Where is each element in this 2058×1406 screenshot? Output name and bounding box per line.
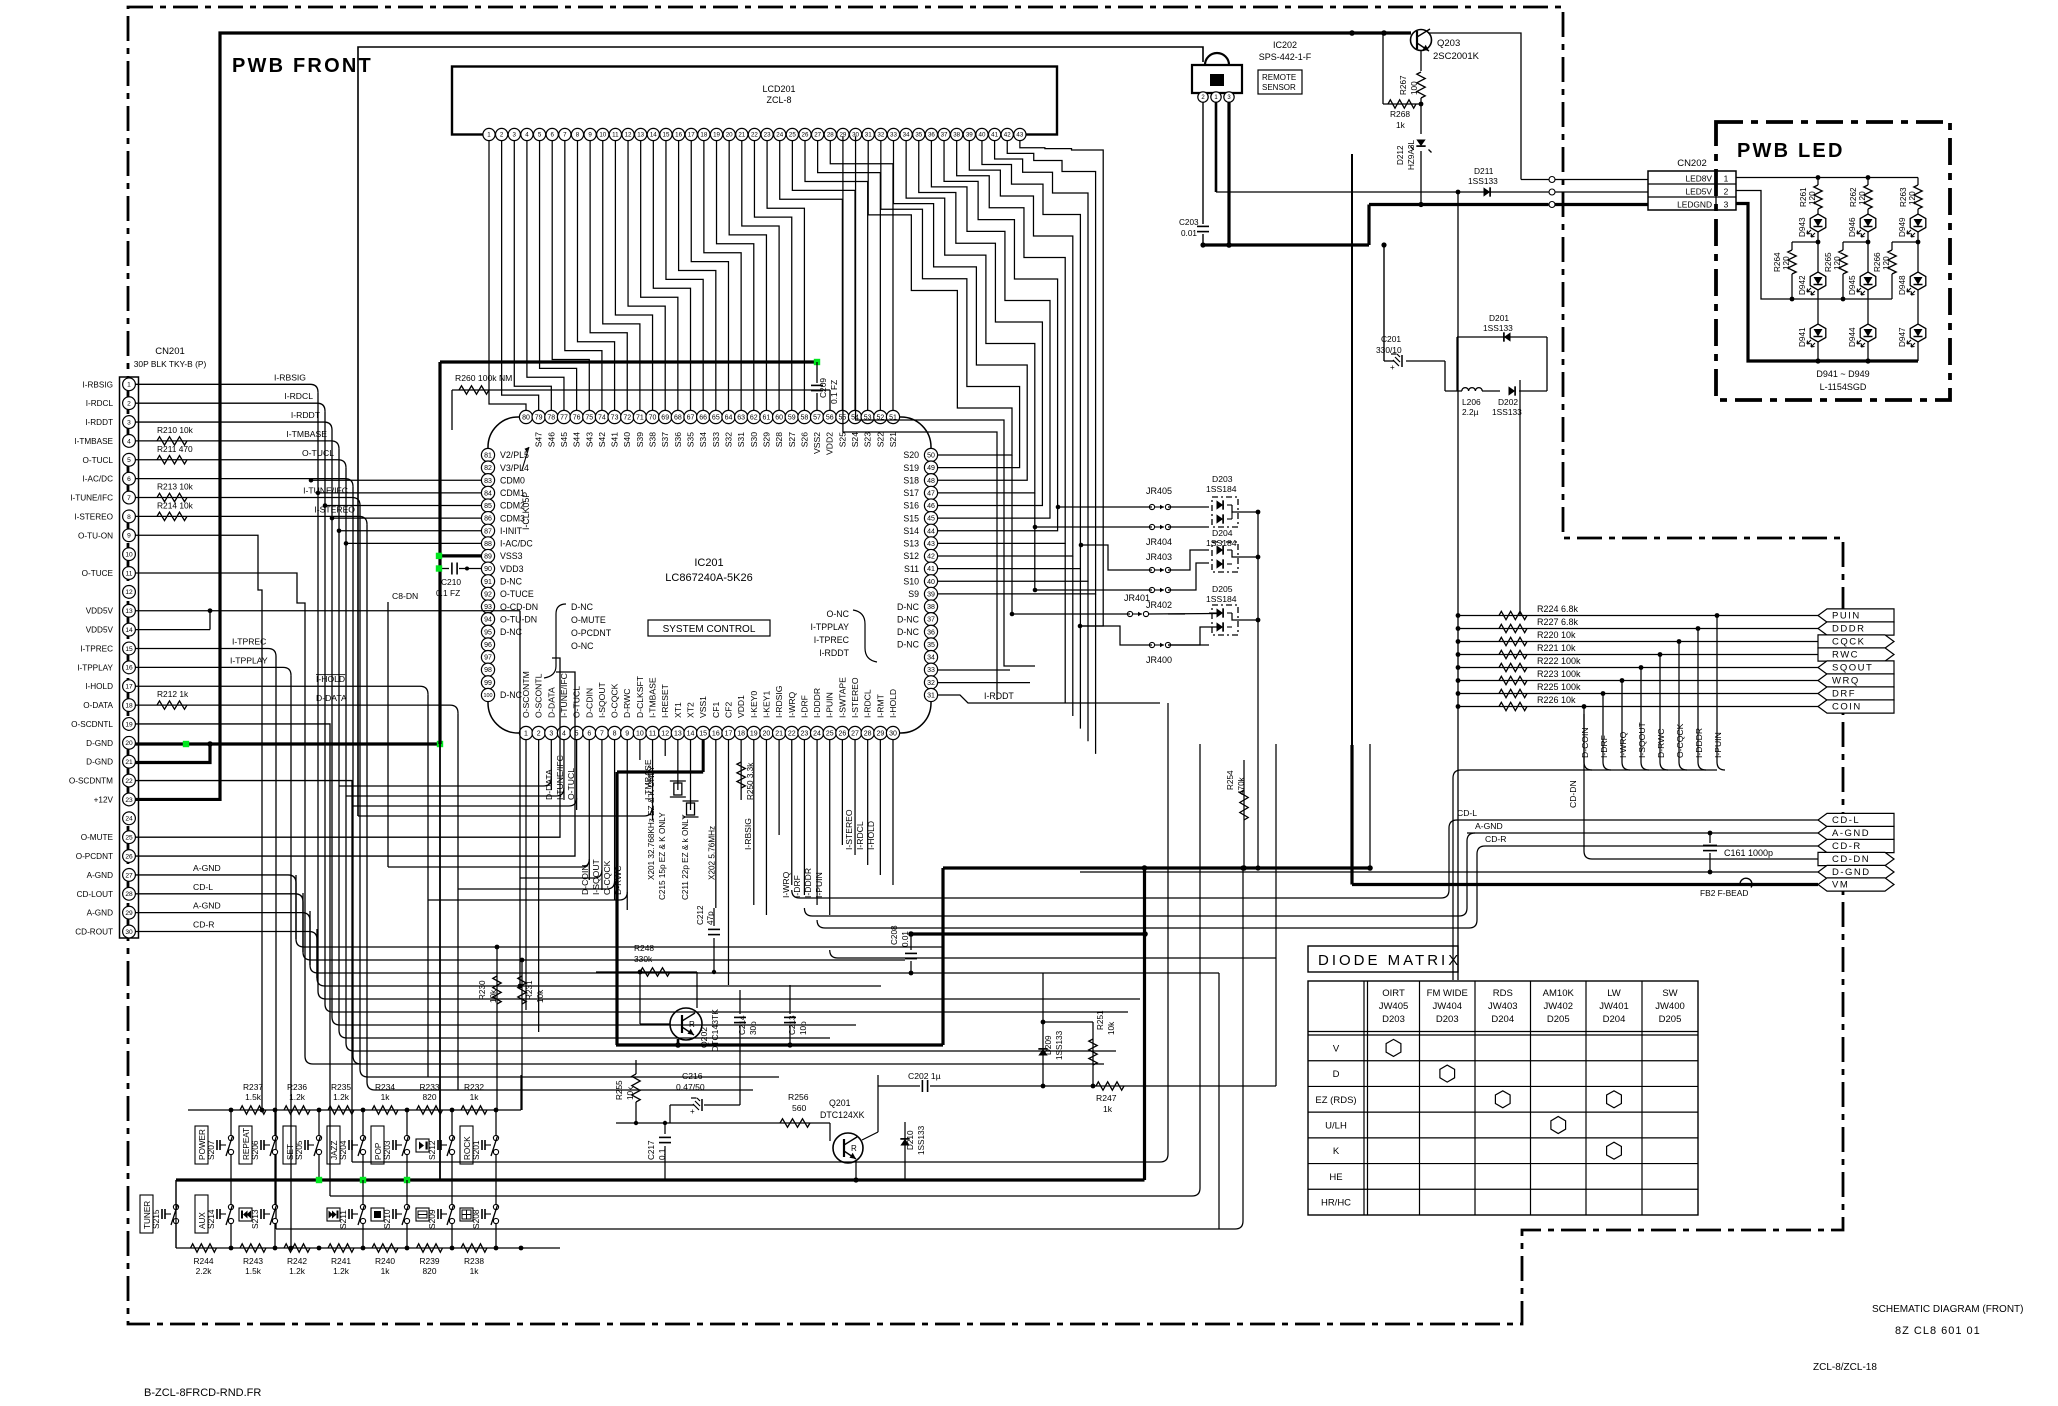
svg-text:I-PUIN: I-PUIN: [825, 692, 835, 718]
svg-text:JR403: JR403: [1146, 552, 1172, 562]
svg-text:19: 19: [125, 721, 133, 728]
CN201 pin 22: [123, 774, 136, 787]
resistor R214 10k: [157, 512, 187, 520]
svg-text:24: 24: [813, 731, 821, 738]
IC201 pin 100: [481, 688, 494, 701]
svg-text:+: +: [1390, 363, 1395, 372]
svg-text:I-RDDT: I-RDDT: [819, 648, 849, 658]
svg-text:S208: S208: [471, 1209, 481, 1229]
svg-text:JR401: JR401: [1124, 593, 1150, 603]
resistor R254 470k: [1243, 760, 1245, 868]
wire CN201 pin3: [136, 421, 325, 423]
svg-text:D205: D205: [1659, 1014, 1682, 1025]
svg-text:10: 10: [599, 132, 606, 139]
svg-text:R247: R247: [1096, 1093, 1117, 1103]
svg-text:67: 67: [687, 415, 695, 422]
wire R260 left end down: [451, 390, 453, 430]
svg-text:D205: D205: [1547, 1014, 1570, 1025]
CN201 pin 4: [123, 435, 136, 448]
svg-text:I-STEREO: I-STEREO: [74, 512, 113, 521]
svg-text:SPS-442-1-F: SPS-442-1-F: [1259, 52, 1312, 62]
resistor R266 120: [1892, 241, 1918, 243]
IC201 pin 74: [595, 410, 608, 423]
svg-text:D-RWC: D-RWC: [1656, 729, 1666, 758]
wire to CD-R tag: [1485, 845, 1818, 847]
IC201 pin 68: [671, 410, 684, 423]
svg-text:D942: D942: [1798, 275, 1807, 295]
svg-text:A-GND: A-GND: [87, 909, 113, 918]
CN201 pin 18: [123, 699, 136, 712]
svg-text:S44: S44: [572, 432, 582, 448]
wire: [324, 411, 326, 1004]
IC201 pin 28: [861, 726, 874, 739]
wire thick LEDGND line y204.5: [1369, 203, 1549, 206]
svg-text:22: 22: [788, 731, 796, 738]
svg-text:12: 12: [661, 731, 669, 738]
svg-text:SW: SW: [1662, 988, 1677, 999]
wire CN201 pin27 A-GND: [136, 874, 289, 876]
IC201 pin 53: [861, 410, 874, 423]
jumper JR402: [1149, 587, 1154, 592]
wire IC202 pin1 to LED5V: [1215, 102, 1218, 192]
CN201 pin 6: [123, 472, 136, 485]
svg-text:D-CDIN: D-CDIN: [584, 688, 594, 718]
svg-text:D201: D201: [1489, 313, 1509, 323]
svg-text:28: 28: [827, 132, 834, 139]
svg-text:78: 78: [547, 415, 555, 422]
wire VSS1 thick: [702, 740, 705, 772]
IC201 pin 34: [924, 650, 937, 663]
svg-text:S212: S212: [427, 1140, 437, 1160]
svg-text:90: 90: [484, 566, 492, 573]
svg-text:R264: R264: [1773, 252, 1782, 272]
svg-text:I-RBSIG: I-RBSIG: [83, 380, 113, 389]
svg-text:D203: D203: [1382, 1014, 1405, 1025]
svg-text:15: 15: [663, 132, 670, 139]
wire TUNER left leg: [175, 1180, 177, 1248]
svg-text:S23: S23: [863, 432, 873, 448]
svg-text:C208: C208: [890, 925, 899, 945]
svg-text:R268: R268: [1390, 109, 1410, 119]
svg-text:U/LH: U/LH: [1325, 1121, 1347, 1132]
wire jumper feeds: [1056, 505, 1061, 510]
IC202 pin 3: [1224, 92, 1234, 102]
svg-text:CD-L: CD-L: [193, 882, 213, 892]
wire +12V bus (thick) from CN201 pin23: [136, 33, 1412, 799]
wire to CD-L tag: [1457, 819, 1818, 821]
switch S208: [493, 1204, 498, 1209]
wire: [317, 392, 319, 991]
svg-text:120: 120: [1908, 191, 1917, 205]
svg-text:39: 39: [927, 591, 935, 598]
svg-text:I-TUNE/IFC: I-TUNE/IFC: [70, 494, 113, 503]
terminal circles at board boundary: [1549, 177, 1555, 183]
svg-text:30P BLK TKY-B (P): 30P BLK TKY-B (P): [134, 359, 207, 369]
svg-text:S209: S209: [427, 1209, 437, 1229]
LCD201 pin 14: [647, 128, 659, 140]
svg-text:LEDGND: LEDGND: [1677, 200, 1712, 210]
wire CN201 pins13-14 VDD5V: [136, 610, 211, 612]
node +12V junctions: [1349, 30, 1355, 36]
IC201 pin 41: [924, 562, 937, 575]
LCD201 pin 42: [1001, 128, 1013, 140]
svg-text:VDD5V: VDD5V: [86, 607, 114, 616]
svg-text:D-COIN: D-COIN: [1580, 727, 1590, 758]
svg-text:I-AC/DC: I-AC/DC: [83, 475, 114, 484]
IC201 pin 63: [735, 410, 748, 423]
wire D-COIN drop: [1582, 704, 1587, 709]
wire thick riser x1144 from key bus: [1143, 868, 1146, 1180]
switch S204 JAZZ: [360, 1135, 365, 1140]
svg-text:PUIN: PUIN: [1832, 611, 1861, 622]
wire thick bus y868: [943, 866, 1370, 869]
svg-text:D202: D202: [1498, 397, 1518, 407]
svg-text:CF1: CF1: [711, 702, 721, 718]
svg-text:21: 21: [125, 759, 133, 766]
svg-text:5: 5: [538, 132, 542, 139]
svg-text:D209: D209: [1044, 1035, 1053, 1055]
dual diode D205 1SS184: [1212, 605, 1238, 635]
IC201 pin 71: [633, 410, 646, 423]
svg-text:79: 79: [535, 415, 543, 422]
svg-text:7: 7: [127, 495, 131, 502]
wire: [616, 1122, 700, 1124]
svg-text:38: 38: [953, 132, 960, 139]
LED D944: [1860, 324, 1876, 342]
svg-text:I-CLK05P: I-CLK05P: [521, 492, 531, 530]
LED D941: [1810, 324, 1826, 342]
IC201 pin 88: [481, 537, 494, 550]
svg-text:D-NC: D-NC: [571, 602, 594, 612]
svg-text:100: 100: [1410, 81, 1419, 95]
svg-text:I-TPPLAY: I-TPPLAY: [811, 622, 850, 632]
switch S213: [272, 1204, 277, 1209]
svg-text:R225 100k: R225 100k: [1537, 682, 1581, 692]
svg-text:28: 28: [864, 731, 872, 738]
svg-text:60: 60: [775, 415, 783, 422]
wire CN201 pin4: [136, 440, 332, 442]
svg-text:O-CQCK: O-CQCK: [1675, 723, 1685, 758]
IC201 pin 38: [924, 600, 937, 613]
IC201 pin 80: [519, 410, 532, 423]
svg-text:I-TMBASE: I-TMBASE: [74, 437, 113, 446]
svg-text:I-WRQ: I-WRQ: [781, 871, 791, 898]
svg-text:O-NC: O-NC: [571, 641, 594, 651]
svg-text:S38: S38: [648, 432, 658, 448]
IC201 pin 36: [924, 625, 937, 638]
svg-text:O-SCONTM: O-SCONTM: [521, 671, 531, 718]
svg-text:S21: S21: [888, 432, 898, 448]
svg-text:6: 6: [550, 132, 554, 139]
svg-text:76: 76: [573, 415, 581, 422]
svg-text:VM: VM: [1832, 880, 1849, 891]
svg-text:LCD201: LCD201: [762, 84, 795, 94]
svg-text:RWC: RWC: [1832, 650, 1859, 661]
svg-text:1k: 1k: [381, 1092, 391, 1102]
wire bundle LCD201 pins 29-43 staircase to IC201 right pins: [868, 141, 1012, 455]
svg-text:C202 1µ: C202 1µ: [908, 1071, 941, 1081]
svg-text:0.1: 0.1: [658, 1148, 667, 1160]
svg-text:SQOUT: SQOUT: [1832, 663, 1873, 674]
LCD201 pin 17: [685, 128, 697, 140]
svg-text:3: 3: [127, 419, 131, 426]
svg-text:S205: S205: [294, 1140, 304, 1160]
svg-text:V2/PL5: V2/PL5: [500, 450, 529, 460]
wire LCD pins 29-30 to far right verticals: [843, 136, 997, 700]
svg-text:I-STEREO: I-STEREO: [850, 677, 860, 718]
svg-text:I-RDDT: I-RDDT: [291, 410, 321, 420]
wire CN201 pin25 O-MUTE: [136, 658, 561, 837]
wire CN201 pin9 O-TU-ON: [136, 535, 263, 1110]
svg-text:I-SQOUT: I-SQOUT: [597, 681, 607, 718]
resistor R231 10k: [521, 960, 523, 1110]
IC201 pin 76: [570, 410, 583, 423]
DIODE MATRIX title box: [1308, 946, 1458, 972]
svg-text:43: 43: [927, 541, 935, 548]
svg-text:16: 16: [125, 665, 133, 672]
svg-text:K: K: [1333, 1146, 1340, 1157]
svg-text:22: 22: [751, 132, 758, 139]
svg-text:DIODE MATRIX: DIODE MATRIX: [1318, 952, 1461, 969]
IC201 pin 94: [481, 613, 494, 626]
svg-text:JW405: JW405: [1379, 1001, 1409, 1012]
svg-text:65: 65: [712, 415, 720, 422]
CN201 pin 23: [123, 793, 136, 806]
svg-text:R244: R244: [193, 1256, 213, 1266]
CN201 pin 12: [123, 585, 136, 598]
svg-text:S22: S22: [875, 432, 885, 448]
IC201 pin 7: [595, 726, 608, 739]
svg-text:15: 15: [125, 646, 133, 653]
svg-text:I-RDCL: I-RDCL: [86, 399, 114, 408]
svg-text:O-TUCE: O-TUCE: [82, 569, 114, 578]
wire CN201 pin26 O-PCDNT: [136, 672, 576, 856]
diode D210 1SS133: [904, 1122, 906, 1180]
wire IC bottom left connects: [339, 778, 551, 786]
svg-text:83: 83: [484, 478, 492, 485]
svg-text:80: 80: [522, 415, 530, 422]
IC201 pin 1: [519, 726, 532, 739]
IC201 pin 20: [760, 726, 773, 739]
resistor R248 330k: [596, 971, 697, 973]
svg-text:I-TPPLAY: I-TPPLAY: [77, 663, 113, 672]
svg-text:WRQ: WRQ: [1832, 676, 1860, 687]
svg-text:XT2: XT2: [686, 702, 696, 718]
IC201 pin 6: [583, 726, 596, 739]
svg-text:C212: C212: [696, 905, 705, 925]
node CQCK tag: [1818, 635, 1894, 648]
svg-text:S41: S41: [610, 432, 620, 448]
LCD201 pin 34: [900, 128, 912, 140]
svg-text:D204: D204: [1212, 528, 1233, 538]
svg-text:88: 88: [484, 541, 492, 548]
resistor R237 1.5k: [240, 1106, 266, 1114]
svg-text:S15: S15: [903, 513, 919, 523]
LCD201 pin 3: [508, 128, 520, 140]
IC201 pin 79: [532, 410, 545, 423]
svg-text:D: D: [1333, 1069, 1340, 1080]
svg-text:10k: 10k: [626, 1086, 635, 1100]
IC201 pin 47: [924, 486, 937, 499]
wire Q203 emitter down: [1420, 51, 1422, 72]
LCD201 pin 6: [546, 128, 558, 140]
svg-text:S9: S9: [908, 589, 919, 599]
svg-text:VDD5V: VDD5V: [86, 626, 114, 635]
svg-text:ZCL-8: ZCL-8: [766, 95, 791, 105]
IC201 pin 15: [697, 726, 710, 739]
svg-text:VSS1: VSS1: [698, 696, 708, 718]
switch S210: [404, 1204, 409, 1209]
LCD201 pin 9: [584, 128, 596, 140]
resistor R241 1.2k: [328, 1244, 354, 1252]
svg-text:A-GND: A-GND: [87, 871, 113, 880]
svg-text:R227 6.8k: R227 6.8k: [1537, 617, 1579, 627]
wire D-GND bus from CN201 pins 20-21 (thick): [136, 742, 441, 745]
svg-text:LED5V: LED5V: [1685, 187, 1712, 197]
svg-text:S214: S214: [206, 1209, 216, 1229]
IC201 pin 32: [924, 676, 937, 689]
svg-text:I-WRQ: I-WRQ: [1618, 731, 1628, 758]
svg-text:I-HOLD: I-HOLD: [316, 674, 345, 684]
svg-text:CD-R: CD-R: [1832, 841, 1862, 852]
IC201 pin 64: [722, 410, 735, 423]
svg-text:R260 100k NM: R260 100k NM: [455, 373, 512, 383]
svg-text:74: 74: [598, 415, 606, 422]
svg-text:I-HOLD: I-HOLD: [866, 821, 876, 850]
IC202 pin 2: [1198, 92, 1208, 102]
svg-text:DTC124XK: DTC124XK: [820, 1110, 865, 1120]
IC201 pin 5: [570, 726, 583, 739]
svg-text:71: 71: [636, 415, 644, 422]
IC201 pin 29: [874, 726, 887, 739]
CN201 pin 2: [123, 397, 136, 410]
wire LED8V rail: [1736, 177, 1918, 179]
IC201 pin 56: [823, 410, 836, 423]
svg-text:29: 29: [125, 910, 133, 917]
IC201 pin 21: [773, 726, 786, 739]
LCD201 pin 40: [976, 128, 988, 140]
svg-text:6: 6: [587, 731, 591, 738]
svg-text:R263: R263: [1899, 187, 1908, 207]
CN201 pin 15: [123, 642, 136, 655]
svg-text:48: 48: [927, 478, 935, 485]
svg-text:I-RDSIG: I-RDSIG: [774, 685, 784, 718]
resistor R265 120: [1843, 241, 1868, 243]
LCD201 pin 37: [938, 128, 950, 140]
svg-text:26: 26: [802, 132, 809, 139]
svg-text:S45: S45: [559, 432, 569, 448]
wire to D-GND tag: [1080, 871, 1818, 873]
wire CF1/CF2 drops: [715, 740, 717, 908]
switch S207 POWER: [228, 1135, 233, 1140]
svg-text:R231: R231: [525, 980, 534, 1000]
svg-text:R210 10k: R210 10k: [157, 425, 194, 435]
switch S203 POP: [404, 1135, 409, 1140]
LED D949: [1910, 214, 1926, 232]
svg-text:R239: R239: [419, 1256, 439, 1266]
svg-text:S31: S31: [736, 432, 746, 448]
svg-text:D946: D946: [1848, 217, 1857, 237]
capacitor C217 0.1: [659, 1136, 671, 1138]
svg-text:1.5k: 1.5k: [245, 1266, 262, 1276]
svg-text:D-RWC: D-RWC: [622, 689, 632, 718]
svg-text:R237: R237: [243, 1082, 263, 1092]
resistor R225 100k: [1458, 693, 1818, 695]
wire CN201 pin30 CD-R: [136, 931, 310, 933]
svg-text:96: 96: [484, 642, 492, 649]
LED D942: [1810, 272, 1826, 290]
svg-text:2SC2001K: 2SC2001K: [1433, 51, 1480, 62]
LCD201 pin 19: [710, 128, 722, 140]
svg-text:33: 33: [890, 132, 897, 139]
svg-text:D949: D949: [1898, 217, 1907, 237]
LCD201 pin 4: [521, 128, 533, 140]
LCD201 pin 1: [483, 128, 495, 140]
svg-text:S30: S30: [749, 432, 759, 448]
svg-text:21: 21: [775, 731, 783, 738]
svg-text:O-DATA: O-DATA: [83, 701, 113, 710]
svg-text:10: 10: [636, 731, 644, 738]
svg-text:I-HOLD: I-HOLD: [85, 682, 113, 691]
svg-text:36: 36: [927, 629, 935, 636]
wire CN201 pin7: [136, 497, 353, 499]
board boundary PWB FRONT (dash-dot border): [128, 7, 1843, 1324]
svg-text:20: 20: [726, 132, 733, 139]
svg-text:2: 2: [537, 731, 541, 738]
svg-text:35: 35: [927, 642, 935, 649]
IC201 pin 48: [924, 474, 937, 487]
svg-text:S18: S18: [903, 475, 919, 485]
svg-text:25: 25: [789, 132, 796, 139]
LCD201 pin 20: [723, 128, 735, 140]
IC201 pin 70: [646, 410, 659, 423]
svg-text:XT1: XT1: [673, 702, 683, 718]
resistor chain top row R237-R232: [188, 1109, 521, 1111]
svg-text:R220 10k: R220 10k: [1537, 630, 1576, 640]
IC201 pin 46: [924, 499, 937, 512]
svg-text:L206: L206: [1462, 397, 1481, 407]
svg-text:LED8V: LED8V: [1685, 174, 1712, 184]
wire lower long lines with right risers: [352, 1161, 1160, 1163]
IC201 pin 61: [760, 410, 773, 423]
wire O-CQCK drop: [1677, 639, 1682, 644]
wire I-DRF drop: [1601, 691, 1606, 696]
wire D-RWC drop: [1658, 652, 1663, 657]
svg-text:JR404: JR404: [1146, 537, 1172, 547]
ferrite bead FB2 F-BEAD: [1740, 878, 1752, 887]
svg-text:I-RDCL: I-RDCL: [855, 821, 865, 850]
resistor R211 470: [157, 456, 187, 464]
transistor Q203 2SC2001K: [1411, 30, 1432, 51]
svg-text:D944: D944: [1848, 327, 1857, 347]
LCD201 pin 29: [837, 128, 849, 140]
LCD201 pin 32: [875, 128, 887, 140]
svg-text:D-NC: D-NC: [897, 614, 920, 624]
resistor R221 10k: [1458, 654, 1818, 656]
svg-text:D-GND: D-GND: [1832, 867, 1871, 878]
svg-text:1k: 1k: [381, 1266, 391, 1276]
svg-text:18: 18: [700, 132, 707, 139]
IC201 pin 31: [924, 688, 937, 701]
svg-text:S213: S213: [250, 1209, 260, 1229]
svg-text:2.2k: 2.2k: [196, 1266, 213, 1276]
svg-text:VDD1: VDD1: [736, 695, 746, 718]
svg-text:SCHEMATIC DIAGRAM (FRONT): SCHEMATIC DIAGRAM (FRONT): [1872, 1304, 2023, 1315]
svg-text:10k: 10k: [1107, 1021, 1116, 1035]
wire CN201 pin17 I-HOLD: [136, 685, 421, 687]
svg-text:D-COIN: D-COIN: [580, 864, 590, 895]
svg-text:HR/HC: HR/HC: [1321, 1198, 1351, 1209]
